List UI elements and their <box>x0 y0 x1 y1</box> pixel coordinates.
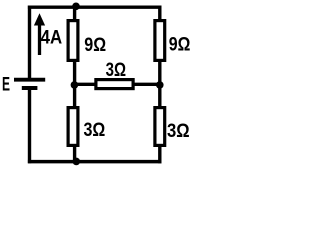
wire bottom <box>28 160 162 164</box>
wire left upper <box>28 6 31 80</box>
svg-text:4A: 4A <box>41 27 63 49</box>
wire middle upper <box>73 7 76 20</box>
resistor R5 3ohm right bottom <box>155 108 165 146</box>
wire middle lower <box>73 146 76 162</box>
resistor R2 9ohm right top <box>155 21 165 61</box>
wire top <box>28 5 162 8</box>
wire horizontal right <box>133 83 160 86</box>
svg-text:3Ω: 3Ω <box>167 120 190 142</box>
svg-text:E: E <box>2 74 10 96</box>
wire right upper <box>158 6 161 21</box>
wire middle center <box>73 61 76 108</box>
resistor R3 3ohm horizontal <box>96 80 133 89</box>
resistor R1 9ohm middle top <box>68 21 78 61</box>
current arrow 4A head <box>34 13 45 25</box>
node bottom junction <box>73 158 81 166</box>
svg-text:9Ω: 9Ω <box>84 34 106 56</box>
node right junction <box>156 81 164 89</box>
node top junction <box>72 3 80 11</box>
wire horizontal left <box>75 83 96 86</box>
svg-text:3Ω: 3Ω <box>84 119 106 141</box>
resistor R4 3ohm middle bottom <box>68 108 78 146</box>
node middle junction <box>71 81 79 89</box>
battery E short plate <box>22 86 38 90</box>
svg-text:3Ω: 3Ω <box>106 59 126 81</box>
wire left lower <box>28 88 31 163</box>
wire right lower <box>158 146 161 164</box>
wire right middle <box>158 61 161 108</box>
svg-text:9Ω: 9Ω <box>169 33 191 55</box>
current arrow 4A shaft <box>38 25 41 56</box>
battery E long plate <box>14 78 45 82</box>
